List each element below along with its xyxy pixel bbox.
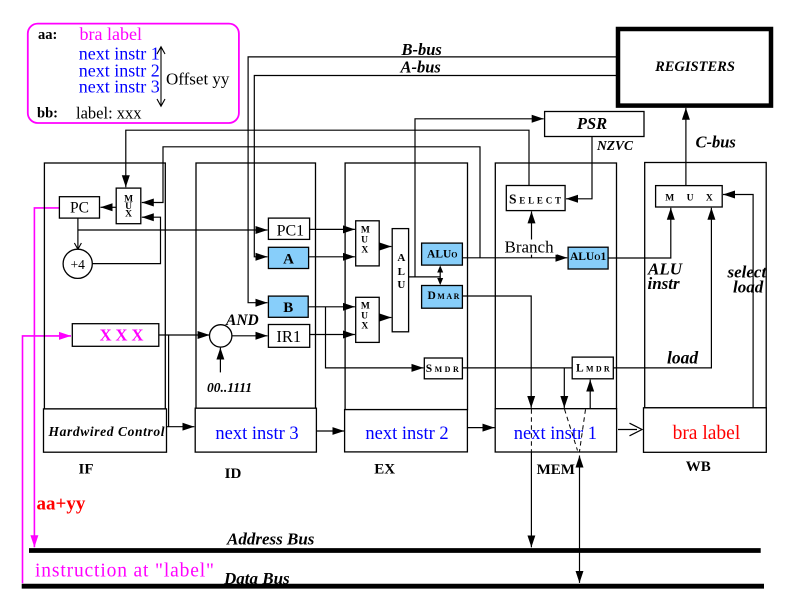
svg-text:next instr 3: next instr 3 xyxy=(79,77,160,97)
unit SELECT xyxy=(506,186,565,211)
thin arrowhead PC to +4 xyxy=(74,243,81,249)
wire branch address to IF MUX upper right input xyxy=(142,147,480,258)
wire C-bus up to REGISTERS xyxy=(685,108,687,186)
svg-text:Branch: Branch xyxy=(505,238,555,257)
svg-text:bra label: bra label xyxy=(80,24,142,44)
svg-text:+4: +4 xyxy=(71,257,86,272)
svg-text:IR1: IR1 xyxy=(276,327,301,346)
svg-text:label: xxx: label: xxx xyxy=(76,104,142,123)
svg-text:MEM: MEM xyxy=(537,462,575,478)
svg-text:NZVC: NZVC xyxy=(596,138,634,153)
wire magenta PC address to Address Bus xyxy=(34,208,59,547)
wire SMDR load line to WB MUX xyxy=(462,208,711,368)
mux EX MUX1 xyxy=(356,221,380,266)
svg-text:Dmar: Dmar xyxy=(427,290,460,302)
wire memory read up to LMDR xyxy=(589,380,591,409)
svg-text:A: A xyxy=(283,251,294,267)
svg-text:aa:: aa: xyxy=(38,27,57,43)
svg-text:next instr 1: next instr 1 xyxy=(514,424,597,444)
svg-text:B: B xyxy=(283,300,293,316)
wire B down to SMDR xyxy=(326,307,424,368)
offset double arrow xyxy=(157,47,165,106)
wire NZVC from PSR down to SELECT xyxy=(566,137,592,199)
label M U X of EX MUX1 xyxy=(361,226,370,256)
label Branch xyxy=(504,240,558,255)
svg-text:ID: ID xyxy=(225,466,242,482)
wire Hardwired Control to next instr 3 xyxy=(166,426,194,428)
register ALUo1 xyxy=(568,247,608,269)
svg-text:X: X xyxy=(361,322,368,332)
wire PC output to PC1 xyxy=(78,229,268,231)
latch box Hardwired Control xyxy=(44,409,167,452)
label M U X of EX MUX2 xyxy=(361,302,370,332)
svg-text:next instr 2: next instr 2 xyxy=(365,424,448,444)
wire MUX2 to ALU xyxy=(379,317,391,319)
svg-text:M: M xyxy=(361,302,370,312)
register file REGISTERS xyxy=(618,29,771,106)
wire IF MUX output to PC xyxy=(101,206,117,208)
register PSR xyxy=(545,112,644,137)
register IR1 xyxy=(268,325,309,348)
wire next instr 2 to next instr 1 xyxy=(467,427,494,429)
svg-text:B-bus: B-bus xyxy=(401,40,442,59)
Address Bus xyxy=(29,548,761,553)
WB stage box xyxy=(645,163,767,408)
wire PC down to +4 xyxy=(77,218,79,248)
wire AND output to IR1 xyxy=(232,335,268,337)
svg-text:Smdr: Smdr xyxy=(426,363,462,375)
register LMDR xyxy=(572,357,613,379)
wire select load from WB instruction to WB MUX xyxy=(723,195,753,408)
register DMAR xyxy=(422,286,463,309)
register ALUo xyxy=(422,243,463,265)
wire ALU output horizontal xyxy=(409,276,441,278)
wire XXX output to AND gate xyxy=(159,334,210,336)
svg-text:Lmdr: Lmdr xyxy=(576,363,612,375)
svg-text:M: M xyxy=(361,226,370,236)
svg-text:U: U xyxy=(397,279,405,291)
register PC xyxy=(59,197,99,218)
wire B-bus from REGISTERS down to B xyxy=(248,57,618,303)
IF stage box xyxy=(44,163,165,409)
register XXX xyxy=(72,324,159,347)
svg-text:IF: IF xyxy=(79,462,94,478)
svg-text:A-bus: A-bus xyxy=(400,58,441,77)
svg-text:Hardwired Control: Hardwired Control xyxy=(48,424,165,439)
wire IR1 to EX MUX2 xyxy=(310,334,355,336)
label M U X of IF MUX xyxy=(124,195,133,220)
svg-text:M U X: M U X xyxy=(665,193,717,203)
svg-text:A: A xyxy=(397,252,405,264)
svg-text:WB: WB xyxy=(686,459,711,475)
register PC1 xyxy=(268,218,309,239)
gate AND xyxy=(210,325,232,347)
wire SELECT output to IF MUX top xyxy=(126,130,529,187)
svg-text:ALUo1: ALUo1 xyxy=(570,251,607,263)
wire store data down into MEM xyxy=(563,368,565,408)
BOXES xyxy=(44,163,766,410)
svg-text:C-bus: C-bus xyxy=(696,133,736,152)
svg-text:X: X xyxy=(361,246,368,256)
svg-text:XXX: XXX xyxy=(100,326,148,345)
annotation box program listing xyxy=(28,24,239,123)
svg-text:Offset yy: Offset yy xyxy=(166,70,230,89)
register SMDR xyxy=(424,358,462,379)
latch box next instr 3 xyxy=(195,408,316,452)
svg-text:PSR: PSR xyxy=(576,114,607,133)
wire next instr 3 to next instr 2 xyxy=(316,430,344,432)
open arrow next instr 1 to WB xyxy=(618,423,642,436)
register B xyxy=(268,296,308,317)
mux EX MUX2 xyxy=(356,297,380,342)
svg-text:bb:: bb: xyxy=(37,105,58,121)
register A xyxy=(268,247,308,268)
svg-text:AND: AND xyxy=(225,312,259,329)
svg-text:00..1111: 00..1111 xyxy=(207,380,252,395)
wire Branch up to SELECT xyxy=(531,211,533,257)
svg-text:ALUo: ALUo xyxy=(427,249,458,261)
wire ALU output up to PSR xyxy=(415,119,544,277)
svg-text:load: load xyxy=(733,278,764,297)
wire PC1 to EX MUX1 xyxy=(310,228,355,230)
wire ALUo1 to WB MUX xyxy=(608,208,671,258)
wire XXX to Hardwired Control next stage arrow xyxy=(168,335,170,427)
wire ALUo to ALUo1 xyxy=(462,257,567,259)
wire +4 to IF MUX lower right input xyxy=(92,217,161,263)
label A L U xyxy=(397,252,405,291)
wire B to EX MUX2 xyxy=(308,306,355,308)
mux IF MUX xyxy=(116,188,141,224)
svg-text:aa+yy: aa+yy xyxy=(37,494,86,515)
svg-text:X: X xyxy=(125,210,132,220)
svg-text:Address Bus: Address Bus xyxy=(226,530,315,549)
wire A-bus from REGISTERS down to A xyxy=(254,76,618,257)
svg-text:PC1: PC1 xyxy=(277,223,305,240)
svg-text:instruction at "label": instruction at "label" xyxy=(35,561,214,582)
EX stage box xyxy=(345,163,467,410)
wire A to EX MUX1 xyxy=(309,256,355,258)
wire DMAR down into MEM xyxy=(462,296,531,408)
wire MUX1 to ALU xyxy=(379,246,391,248)
svg-text:instr: instr xyxy=(648,274,681,293)
svg-text:bra label: bra label xyxy=(673,423,741,444)
wire ALU result to ALUo and DMAR xyxy=(439,267,441,284)
svg-text:PC: PC xyxy=(70,200,89,217)
latch box bra label xyxy=(644,408,767,453)
Data Bus xyxy=(22,584,764,589)
wire MEM down to Address Bus xyxy=(530,452,532,547)
latch box next instr 1 xyxy=(495,409,616,452)
arrowheads ALU result into ALUo bottom and DMAR top xyxy=(437,265,443,285)
svg-text:L: L xyxy=(398,266,405,278)
svg-text:Select: Select xyxy=(509,192,564,207)
svg-text:load: load xyxy=(667,347,698,367)
adder +4 xyxy=(63,249,92,278)
MEM stage box xyxy=(495,163,616,409)
svg-text:EX: EX xyxy=(374,462,395,478)
wire MEM to Data Bus bidirectional xyxy=(579,456,581,583)
alu ALU xyxy=(392,229,408,332)
svg-text:REGISTERS: REGISTERS xyxy=(654,59,735,75)
latch box next instr 2 xyxy=(345,410,468,452)
svg-text:U: U xyxy=(361,236,368,246)
svg-text:U: U xyxy=(361,312,368,322)
wire magenta instruction from Data Bus to XXX xyxy=(23,336,72,583)
wire mask 00..1111 up to AND gate xyxy=(219,348,221,373)
dashed pass-through lines in MEM latch xyxy=(531,409,585,451)
svg-text:next instr 3: next instr 3 xyxy=(215,424,298,444)
svg-text:Data Bus: Data Bus xyxy=(223,569,290,588)
ID stage box xyxy=(196,163,316,408)
mux WB MUX xyxy=(656,186,723,207)
